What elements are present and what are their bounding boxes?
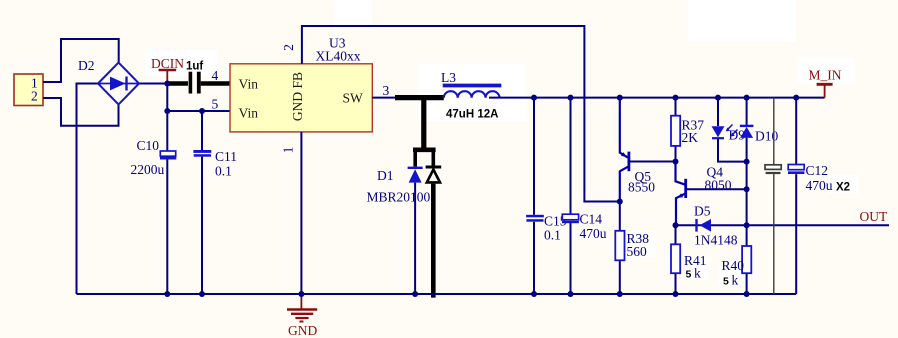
svg-text:470u: 470u <box>580 226 607 241</box>
wire ground rail <box>77 293 797 295</box>
svg-text:8050: 8050 <box>705 178 732 193</box>
junction D9/D10 <box>744 159 750 165</box>
svg-text:2: 2 <box>281 44 296 51</box>
svg-text:MBR20100: MBR20100 <box>367 190 431 205</box>
svg-text:Vin: Vin <box>239 77 259 92</box>
svg-text:C14: C14 <box>580 212 603 227</box>
connector P1 <box>14 74 43 106</box>
svg-text:5: 5 <box>212 97 219 112</box>
junction pin5/C10 <box>164 108 170 114</box>
svg-text:GND FB: GND FB <box>290 72 305 121</box>
wire C10 to ground rail <box>166 159 168 294</box>
svg-text:X2: X2 <box>836 182 850 194</box>
capacitor 1uf (input coupling) <box>167 61 230 94</box>
junction OUT/R40 <box>744 222 750 228</box>
junction rail C15 bottom <box>531 291 537 297</box>
junction rail C12 <box>793 95 799 101</box>
svg-text:M_IN: M_IN <box>809 68 842 83</box>
DCIN power port <box>151 56 184 84</box>
wire Vin pin5 line <box>167 110 230 112</box>
svg-text:SW: SW <box>343 91 364 106</box>
wire SW thick node to L3 <box>395 95 444 100</box>
diode D5 <box>694 204 738 248</box>
junction rail D1 <box>412 291 418 297</box>
svg-text:2200u: 2200u <box>131 162 165 177</box>
junction R37/Q5 base <box>673 159 679 165</box>
svg-text:L3: L3 <box>441 70 456 85</box>
junction rail D10 <box>744 95 750 101</box>
svg-text:C12: C12 <box>806 163 829 178</box>
junction rail D9 <box>715 95 721 101</box>
svg-text:5: 5 <box>723 276 729 288</box>
diode D1 left branch (blue diode) <box>408 150 423 294</box>
svg-text:C10: C10 <box>137 138 160 153</box>
wire C15 bottom drop <box>533 222 535 294</box>
junction feedback node <box>617 199 623 205</box>
svg-text:2: 2 <box>31 89 38 104</box>
capacitor C15 <box>526 214 567 243</box>
wire C14 bottom drop <box>570 223 572 294</box>
junction rail C15 <box>531 95 537 101</box>
svg-text:47uH 12A: 47uH 12A <box>446 109 498 121</box>
wire GND pin 1 down to ground rail <box>300 132 302 294</box>
junction rail C14 <box>568 95 574 101</box>
svg-text:C11: C11 <box>215 149 237 164</box>
junction rail Q5 emitter <box>617 95 623 101</box>
diode D10 <box>740 98 779 294</box>
inductor L3 <box>441 70 501 121</box>
capacitor (C12 pair, gray) <box>765 98 781 294</box>
svg-text:R40: R40 <box>722 258 745 273</box>
wire DCIN node down to C10 <box>166 84 168 152</box>
junction rail C11 <box>199 291 205 297</box>
wire Q5 base to R37 node <box>630 161 676 163</box>
junction rail R41 <box>673 291 679 297</box>
junction pin5/C11 <box>199 108 205 114</box>
wire thick drop from SW node to D1 <box>421 96 426 150</box>
resistor R38 <box>615 202 649 295</box>
diode D1 right branch (black outline diode) <box>426 150 442 298</box>
svg-text:3: 3 <box>383 83 390 98</box>
svg-text:OUT: OUT <box>860 209 888 224</box>
svg-text:Vin: Vin <box>239 106 259 121</box>
svg-text:GND: GND <box>288 323 317 338</box>
wire L3 output rail to M_IN corner <box>489 97 825 99</box>
diode D9 (LED) <box>712 98 747 162</box>
resistor R41 <box>671 244 707 280</box>
svg-text:DCIN: DCIN <box>151 56 184 71</box>
junction rail R40 <box>744 291 750 297</box>
transistor Q4 (NPN 8050) <box>676 162 732 226</box>
ground symbol GND <box>287 294 317 338</box>
svg-text:D1: D1 <box>377 168 394 183</box>
svg-text:1: 1 <box>281 147 296 154</box>
svg-text:470u: 470u <box>806 178 833 193</box>
svg-text:560: 560 <box>627 244 648 259</box>
wire bridge right vertex to DCIN node <box>139 83 168 85</box>
diode D1 dual schottky top bar <box>413 148 436 153</box>
svg-text:4: 4 <box>212 68 219 83</box>
svg-text:5: 5 <box>686 269 692 281</box>
junction Q4 emitter/D5 <box>673 222 679 228</box>
svg-text:0.1: 0.1 <box>215 164 232 179</box>
M_IN power port <box>809 68 842 98</box>
junction rail R38 <box>617 291 623 297</box>
resistor R40 <box>722 246 752 288</box>
wire connector pin2 to bridge bottom <box>43 98 119 126</box>
wire OUT line <box>676 224 890 226</box>
svg-text:1N4148: 1N4148 <box>694 233 738 248</box>
bridge rectifier D2 <box>78 58 139 105</box>
junction rail C10 <box>164 291 170 297</box>
wire FB pin 2 route over the top to feedback node <box>302 26 620 202</box>
wire connector pin1 to bridge top <box>43 39 119 82</box>
capacitor C14 <box>562 212 607 242</box>
transistor Q5 (PNP 8550) <box>620 98 655 202</box>
op-amp U3 regulator body <box>230 36 372 132</box>
resistor R37 <box>671 98 704 162</box>
svg-text:0.1: 0.1 <box>544 228 561 243</box>
wire C14 top drop <box>570 98 572 215</box>
svg-text:8550: 8550 <box>628 180 655 195</box>
wire SW pin 3 stub <box>372 97 397 99</box>
junction DCIN node <box>164 81 170 87</box>
wire C11 top <box>201 111 203 150</box>
wire bridge left vertex to ground rail <box>77 84 100 295</box>
junction rail GND <box>298 291 304 297</box>
junction rail C14 bottom <box>568 291 574 297</box>
svg-text:D5: D5 <box>694 204 711 219</box>
capacitor C11 <box>193 149 237 179</box>
svg-text:2K: 2K <box>682 130 699 145</box>
wire C11 to ground rail <box>201 157 203 294</box>
junction Q4 base <box>744 186 750 192</box>
capacitor C12 <box>788 98 850 294</box>
svg-text:1uf: 1uf <box>186 61 203 73</box>
capacitor C10 <box>131 138 177 177</box>
wire Q4 base to D10 line <box>687 188 747 190</box>
wire C15 top drop <box>533 98 535 215</box>
svg-text:D10: D10 <box>755 129 778 144</box>
junction rail R37 <box>673 95 679 101</box>
svg-text:k: k <box>694 266 701 281</box>
svg-text:D2: D2 <box>78 58 95 73</box>
svg-text:k: k <box>732 273 739 288</box>
wire Q4 emitter node to OUT line and R41 <box>675 225 677 294</box>
svg-text:XL40xx: XL40xx <box>316 49 361 64</box>
